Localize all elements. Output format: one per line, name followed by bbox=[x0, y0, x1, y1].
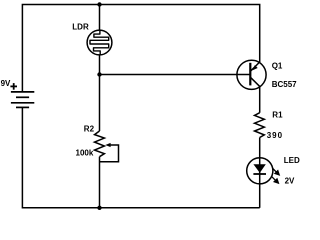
svg-text:R1: R1 bbox=[272, 111, 283, 120]
svg-text:Q1: Q1 bbox=[272, 61, 283, 70]
svg-text:2V: 2V bbox=[285, 177, 295, 186]
svg-text:9V: 9V bbox=[1, 79, 11, 88]
svg-text:BC557: BC557 bbox=[272, 80, 297, 89]
svg-text:100k: 100k bbox=[76, 149, 94, 158]
svg-text:390: 390 bbox=[267, 131, 283, 140]
svg-text:LDR: LDR bbox=[72, 22, 89, 31]
svg-text:R2: R2 bbox=[84, 125, 95, 134]
svg-text:LED: LED bbox=[284, 156, 300, 165]
